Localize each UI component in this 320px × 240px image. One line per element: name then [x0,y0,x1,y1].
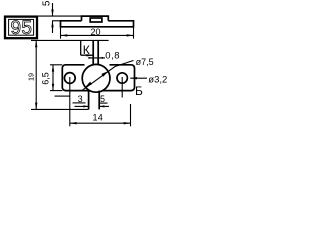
can diameter leader line [82,61,133,91]
dimension 5 extension line (bar top, extended left) [52,20,61,22]
dimension 3 line with outside arrows [75,105,89,107]
collector tab [92,40,94,64]
front view flange [62,65,89,91]
top extension line (19 dim / tab top) [31,39,109,41]
dimension 5 line with arrows [52,3,54,33]
dimension 5 extension line (step top, extended left) [29,15,82,17]
dimension 20 line [61,34,134,36]
svg-text:14: 14 [93,112,104,122]
figure number box 95 [5,17,37,39]
K leader with arrow [81,54,93,56]
bottom extension line (19 dim / lead bottom) [31,108,89,110]
svg-text:0,8: 0,8 [105,51,120,62]
side view slot [90,18,102,22]
svg-text:5: 5 [100,94,105,104]
svg-text:20: 20 [90,27,100,37]
svg-text:Б: Б [135,84,143,98]
side view cap step [82,16,109,21]
emitter lead left edge [88,91,90,110]
K label bracket [80,40,82,55]
dimension 6,5 line with arrows [52,65,54,91]
svg-text:6,5: 6,5 [41,72,51,85]
dimension 19 line with arrows [35,40,37,109]
dimension 14 line with arrows [70,122,131,124]
right mounting hole [117,73,127,83]
transistor can circle [82,64,110,92]
dimension 14 extension lines [130,104,132,126]
svg-text:ø7,5: ø7,5 [136,57,154,67]
auxiliary line at hole centerline [55,95,70,97]
svg-text:К: К [83,43,90,57]
left hole centerline [69,77,71,126]
right hole centerline [121,77,123,98]
hole diameter leader [130,77,147,79]
dimension 0,8 line with arrows [89,57,105,59]
svg-text:5: 5 [42,0,53,6]
svg-text:19: 19 [27,73,36,81]
svg-text:ø3,2: ø3,2 [148,74,167,85]
dimension 6,5 extension lines [50,64,62,66]
side view flange bar outline [61,21,134,27]
dimension 20 extension lines [60,27,62,39]
emitter lead right edge [98,91,100,110]
svg-text:95: 95 [10,18,32,39]
left mounting hole [64,73,75,84]
